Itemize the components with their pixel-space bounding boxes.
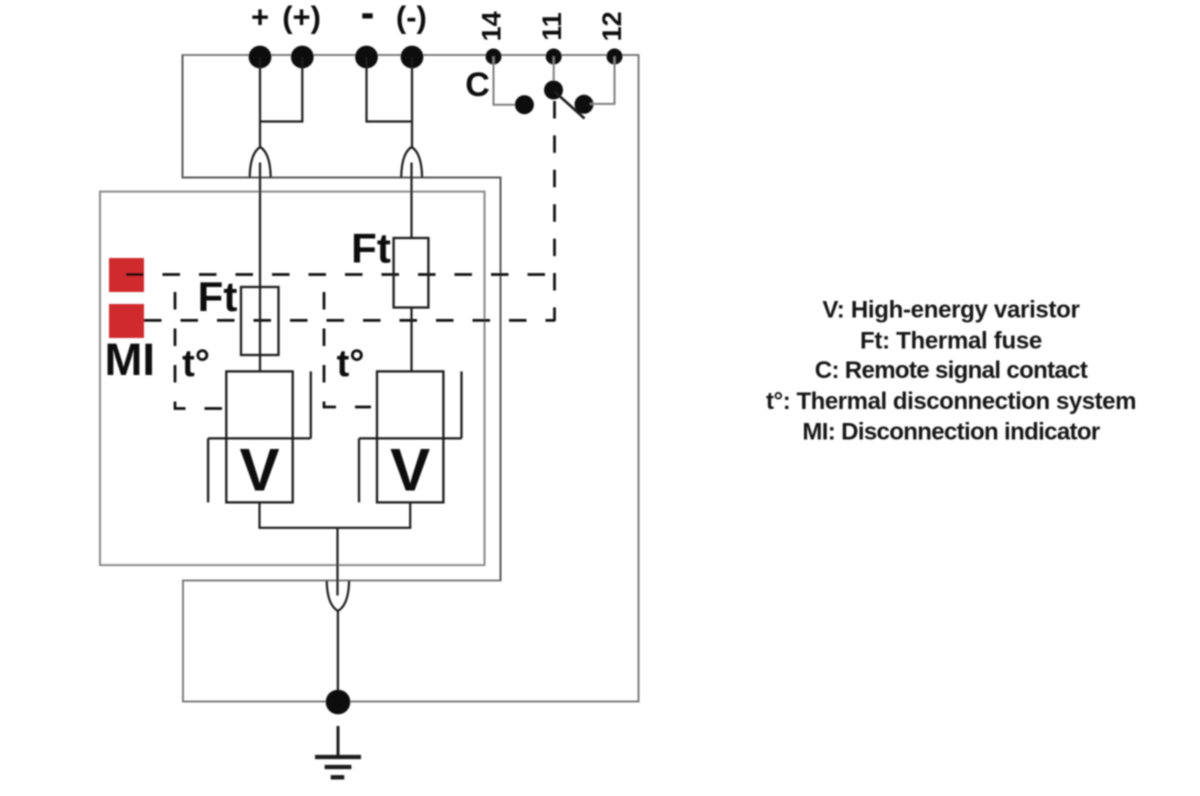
- SPD module gray box: [100, 192, 485, 565]
- wire left into module: [259, 163, 261, 288]
- svg-text:C: C: [465, 66, 490, 104]
- wire terminal 11 to pivot: [553, 57, 555, 89]
- varistor left upper tab: [310, 371, 312, 438]
- wire (+) stub: [260, 57, 302, 122]
- plug connector left (arch): [250, 147, 271, 178]
- svg-text:Ft: Ft: [198, 273, 238, 320]
- switch blade C: [555, 92, 585, 119]
- wire terminal 14 to contact: [494, 57, 520, 105]
- label -: [362, 13, 372, 18]
- thermal fuse Ft right: [394, 238, 429, 308]
- wire right into module: [410, 163, 412, 239]
- wire through left fuse: [259, 287, 261, 371]
- varistor right lower tab: [358, 438, 360, 502]
- thermal fuse Ft left: [241, 287, 279, 355]
- svg-text:t°: t°: [182, 343, 210, 385]
- varistor left lower tab: [207, 438, 209, 502]
- svg-text:(+): (+): [282, 0, 321, 34]
- svg-text:14: 14: [477, 11, 507, 41]
- wire center tap down: [336, 528, 338, 596]
- varistor assembly left box: [226, 371, 292, 502]
- svg-text:MI: Disconnection indicator: MI: Disconnection indicator: [802, 418, 1099, 445]
- wire - stub: [367, 57, 412, 122]
- dashed riser to C: [553, 101, 556, 321]
- dashed signal line 2: [144, 319, 555, 322]
- varistor left divider bar: [208, 437, 311, 439]
- varistor assembly right box: [377, 371, 443, 502]
- wire to ground junction: [337, 611, 339, 702]
- svg-text:MI: MI: [105, 334, 156, 385]
- junction dot: [326, 690, 351, 715]
- svg-text:V: V: [239, 437, 279, 504]
- ground bar 2: [325, 765, 352, 769]
- terminal (+): [291, 46, 314, 69]
- contact dot 12: [575, 95, 594, 114]
- MI indicator square 2: [109, 304, 144, 338]
- thermal disconnect dashed box right: [324, 292, 371, 407]
- terminal 11: [546, 49, 562, 65]
- thermal disconnect dashed box left: [175, 292, 224, 409]
- wire branch top-left loop: [183, 55, 501, 581]
- enclosure outline: [183, 55, 639, 702]
- ground stem: [337, 726, 340, 756]
- MI indicator square 1: [109, 258, 144, 292]
- terminal (-): [401, 46, 424, 69]
- svg-text:V: V: [390, 437, 430, 504]
- plug connector bottom (arch): [327, 581, 349, 611]
- svg-text:Ft: Ft: [351, 225, 391, 272]
- svg-text:(-): (-): [396, 0, 427, 34]
- svg-text:C: Remote signal contact: C: Remote signal contact: [815, 357, 1088, 384]
- ground bar 1: [315, 755, 361, 759]
- wire terminal 12 to contact: [590, 57, 615, 104]
- ground bar 3: [331, 775, 345, 779]
- terminal 12: [607, 49, 623, 65]
- varistor right upper tab: [460, 371, 462, 438]
- svg-text:11: 11: [537, 12, 567, 41]
- plug connector right (arch): [401, 147, 422, 178]
- dashed signal line 1: [126, 273, 545, 276]
- wire (-) down: [411, 57, 413, 147]
- contact dot 14: [515, 95, 534, 114]
- svg-text:Ft: Thermal fuse: Ft: Thermal fuse: [860, 327, 1042, 354]
- wire through right fuse: [410, 308, 412, 372]
- terminal 14: [486, 49, 502, 65]
- wire varistors join: [260, 502, 411, 527]
- pivot dot 11: [544, 81, 563, 100]
- svg-text:t°: t°: [337, 343, 365, 385]
- terminal +: [249, 46, 272, 69]
- varistor right divider bar: [359, 437, 462, 439]
- svg-text:V: High-energy varistor: V: High-energy varistor: [822, 297, 1079, 324]
- terminal -: [355, 46, 378, 69]
- wire + down: [259, 57, 261, 147]
- svg-text:t°: Thermal disconnection syst: t°: Thermal disconnection system: [766, 388, 1136, 415]
- svg-text:12: 12: [597, 11, 627, 41]
- svg-text:+: +: [251, 0, 269, 34]
